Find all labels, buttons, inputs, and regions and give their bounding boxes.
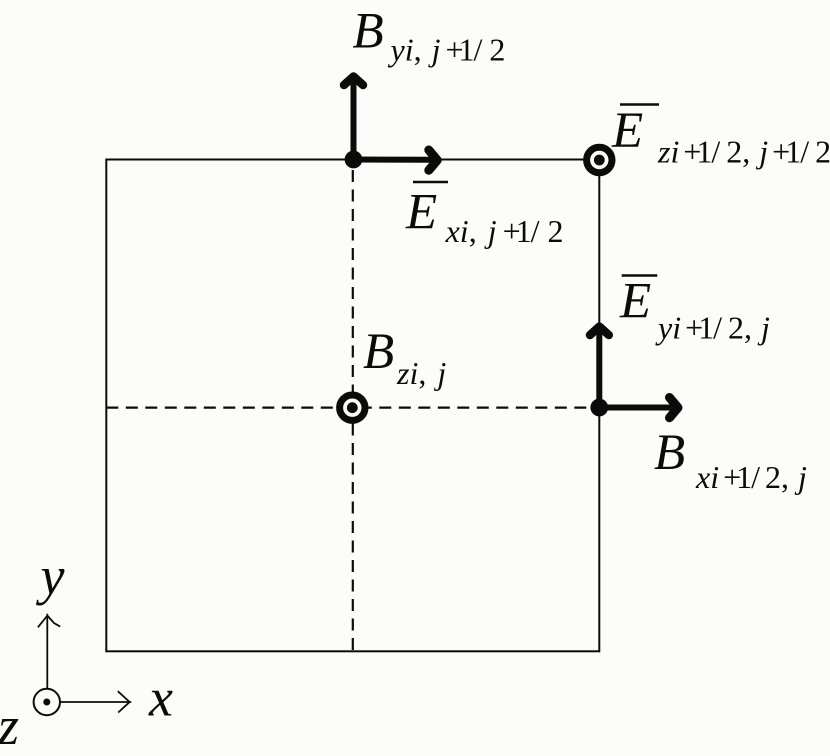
label E_yi+1/2,j (E with overline) bbox=[619, 273, 770, 345]
svg-text:E: E bbox=[405, 185, 437, 241]
grid cell outline bbox=[106, 160, 599, 652]
axis x arrow bbox=[60, 691, 131, 712]
node Ex/By (filled dot, top edge midpoint) bbox=[345, 151, 363, 169]
arrow Ex (thick right arrow at top node) bbox=[354, 150, 438, 170]
svg-text:z: z bbox=[0, 696, 19, 756]
svg-text:x: x bbox=[148, 668, 173, 728]
svg-text:B: B bbox=[654, 425, 685, 481]
vertical dashed grid line bbox=[352, 160, 354, 651]
arrow Bx (thick right arrow at right node) bbox=[599, 398, 678, 418]
svg-text:zi+1/2, j+1/2: zi+1/2, j+1/2 bbox=[657, 134, 830, 170]
svg-text:zi, j: zi, j bbox=[396, 355, 446, 391]
svg-text:yi+1/2, j: yi+1/2, j bbox=[655, 310, 770, 346]
svg-text:E: E bbox=[619, 273, 651, 329]
node Bz (circled dot, cell center) bbox=[340, 395, 365, 420]
node Ey/Bx (filled dot, right edge midpoint) bbox=[590, 399, 608, 417]
node Ez (circled dot, top-right corner) bbox=[587, 147, 612, 172]
svg-text:xi+1/2, j: xi+1/2, j bbox=[695, 459, 807, 495]
label E_xi,j+1/2 (E with overline) bbox=[405, 182, 564, 249]
arrow Ey (thick up arrow at right node) bbox=[590, 327, 609, 408]
svg-text:E: E bbox=[611, 103, 643, 159]
svg-text:B: B bbox=[363, 324, 394, 380]
arrow By (thick up arrow at top node) bbox=[344, 77, 363, 160]
label B_zi,j bbox=[363, 324, 446, 391]
axis y arrow bbox=[38, 614, 60, 689]
label B_xi+1/2,j bbox=[654, 425, 807, 495]
label B_yi,j+1/2 bbox=[353, 4, 506, 68]
svg-text:y: y bbox=[36, 546, 65, 606]
coordinate axes origin (circled dot) bbox=[34, 689, 60, 715]
horizontal dashed grid line bbox=[106, 407, 599, 409]
svg-text:B: B bbox=[353, 4, 384, 60]
label E_zi+1/2,j+1/2 (E with overline) bbox=[611, 103, 830, 170]
